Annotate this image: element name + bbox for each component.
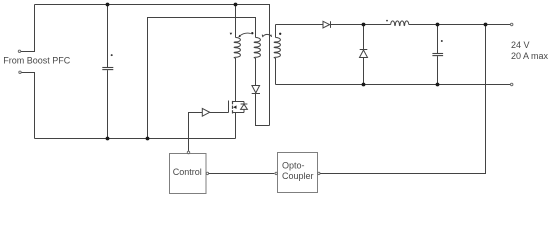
input terminal bottom (19, 71, 21, 73)
mosfet Q1 body diode (241, 102, 248, 113)
transformer T1 reset winding (254, 38, 260, 86)
wire top rail (35, 5, 270, 126)
svg-text:24 V: 24 V (511, 40, 530, 50)
polarity dot winding 3 (279, 33, 281, 35)
polarity mark winding 1 (230, 33, 233, 35)
opto-coupler block (275, 153, 320, 193)
capacitor C2 output (432, 25, 443, 85)
mosfet Q1 (229, 101, 245, 114)
wire output bottom rail (276, 84, 511, 86)
control block (170, 151, 209, 193)
diode D1 reset (252, 86, 260, 94)
output terminal top (511, 23, 513, 25)
svg-text:20 A max: 20 A max (511, 51, 549, 61)
wire (22, 73, 35, 139)
transformer T1 primary winding (234, 5, 240, 102)
wire secondary top (276, 24, 324, 26)
transformer T1 secondary winding (274, 25, 280, 85)
svg-text:Coupler: Coupler (282, 171, 314, 181)
svg-text:Control: Control (173, 167, 202, 177)
capacitor C1 (102, 5, 113, 139)
svg-text:Opto-: Opto- (282, 161, 305, 171)
wire source (235, 113, 237, 139)
coupling arrow 2 (262, 34, 271, 37)
wire gate (210, 112, 229, 114)
wire (409, 24, 511, 26)
polarity dot winding 2 (251, 32, 253, 34)
wire control to opto (209, 173, 275, 175)
driver buffer U2 (202, 108, 209, 116)
output terminal bottom (511, 83, 513, 85)
inductor L1 (386, 20, 409, 26)
input terminal top (18, 50, 20, 52)
svg-text:From Boost PFC: From Boost PFC (3, 55, 71, 65)
wire output top rail (331, 24, 391, 26)
diode D2 series (323, 21, 331, 28)
wire feedback (320, 25, 485, 174)
diode D3 freewheel (360, 25, 368, 85)
wire control to buffer (189, 113, 203, 152)
wire reset-winding return (148, 18, 256, 139)
wire bottom rail (35, 138, 236, 140)
wire (21, 5, 35, 52)
coupling arrow 1 (238, 33, 250, 37)
wire reset return bottom (256, 94, 270, 126)
